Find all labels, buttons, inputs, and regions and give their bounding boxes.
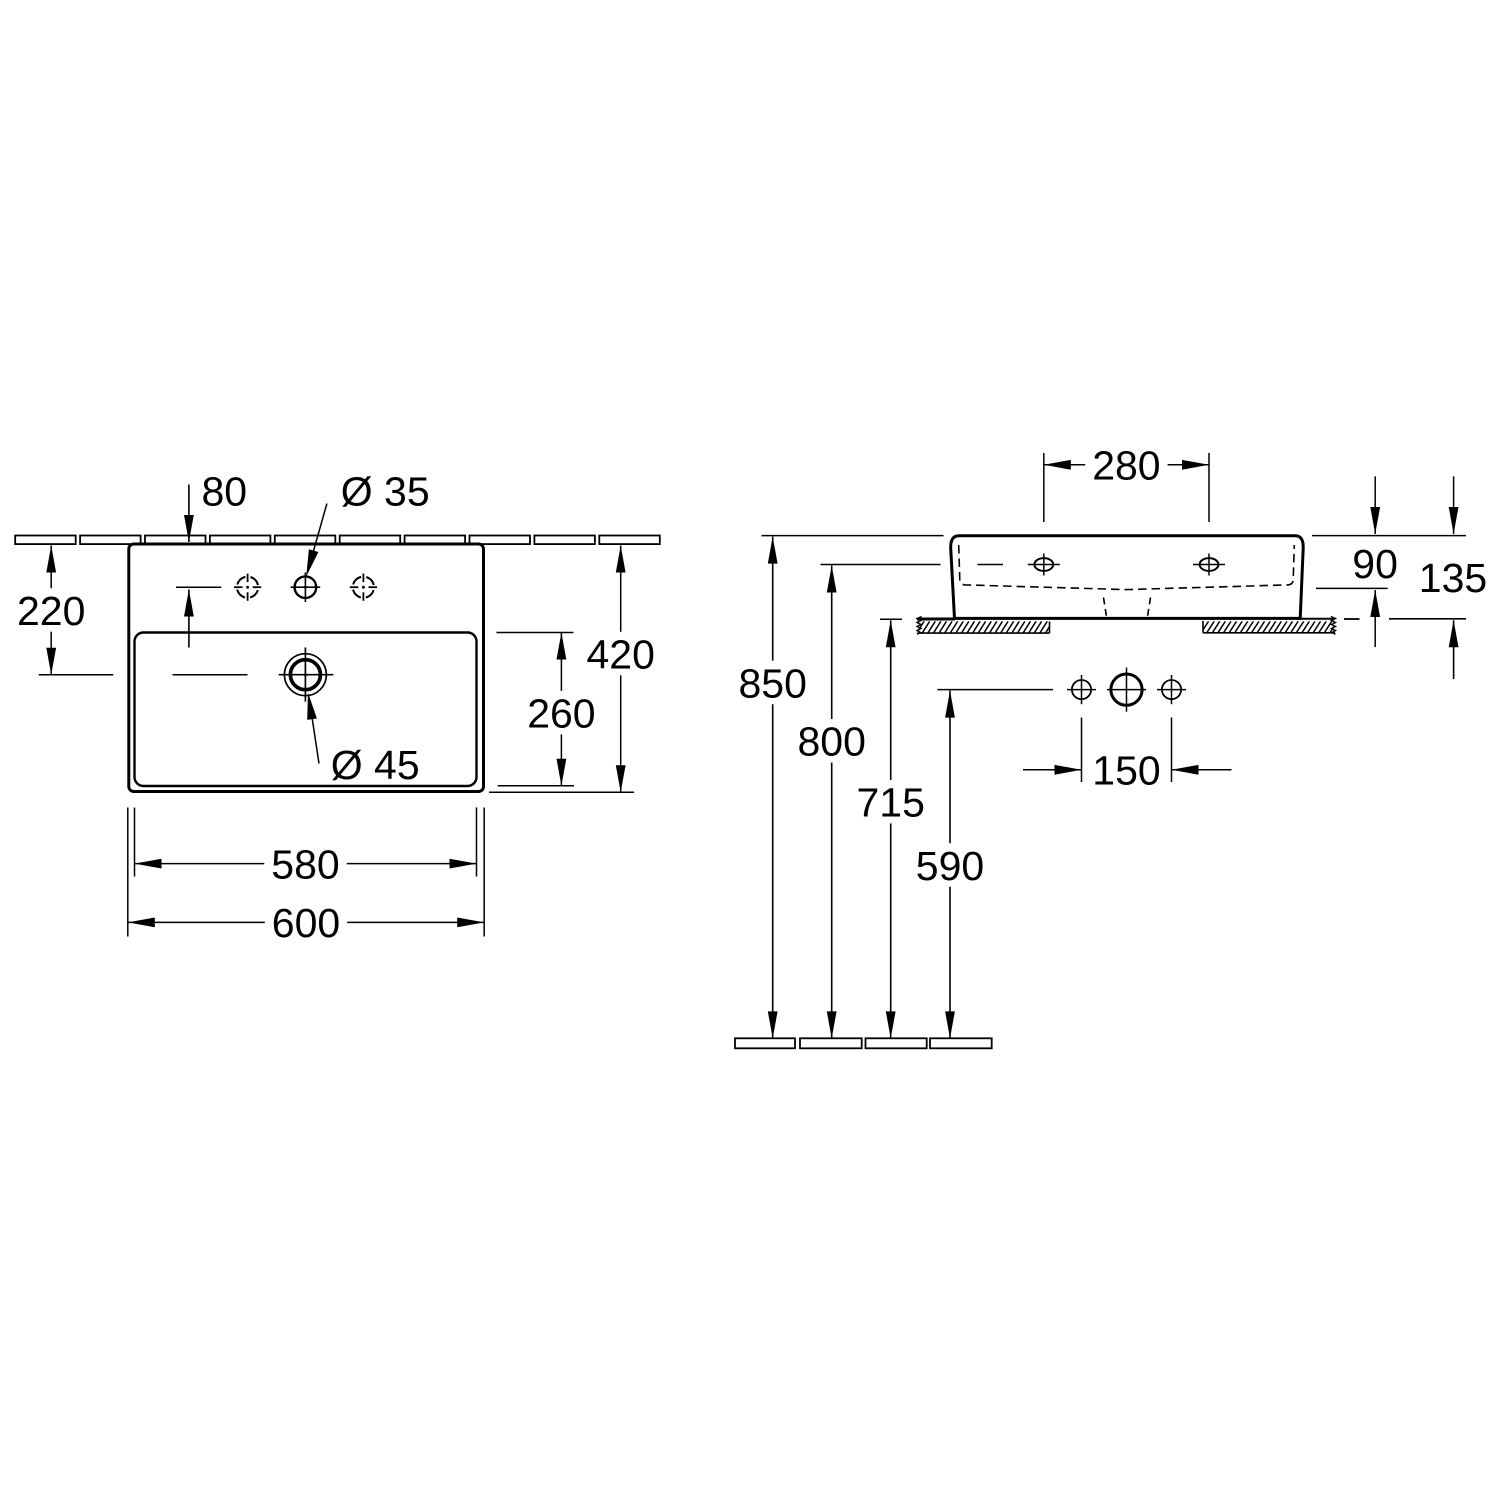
extension lines for 280 xyxy=(1043,453,1045,522)
leader arrow for drain diameter Ø 45 xyxy=(311,711,319,764)
dimension 800 (tap hole height above floor) xyxy=(831,566,833,1039)
bowl-interior-depth reference line (90) xyxy=(1316,587,1388,589)
tap-hole-level reference line inside basin xyxy=(176,586,221,588)
svg-text:150: 150 xyxy=(1092,748,1160,794)
rim-top reference line (90/135) xyxy=(1312,535,1466,537)
bowl-bottom reference line right of basin xyxy=(498,785,574,787)
svg-text:220: 220 xyxy=(17,588,85,634)
dimension 90 lower arrow xyxy=(1374,590,1376,647)
dimension 850 (rim height above floor) xyxy=(772,537,774,1039)
dimension 150 (fixing bolt spacing), outside arrows xyxy=(1023,769,1082,771)
left tap hole (front view) xyxy=(1028,554,1060,576)
left fixing bolt hole (front view) xyxy=(1067,675,1096,704)
washbasin outer rim (top view) xyxy=(129,544,484,792)
dimension 90 upper arrow xyxy=(1374,476,1376,534)
tap-hole-height reference line (800) xyxy=(821,564,941,566)
dimension 280 (tap hole spacing) xyxy=(1044,464,1209,466)
mounting-height reference tick (715) xyxy=(880,618,902,620)
extension line outer-left (600) xyxy=(127,808,129,937)
rim-bottom reference line right of basin xyxy=(489,791,634,793)
svg-text:850: 850 xyxy=(738,660,806,706)
tap-hole centreline dash (front view) xyxy=(978,564,1004,566)
break squiggle at right end of wall hatch xyxy=(1331,617,1336,635)
dimension 600 (overall width) xyxy=(128,921,484,923)
break squiggle at left end of wall hatch xyxy=(917,617,922,635)
wall mounting surface line right of basin (front view) xyxy=(1300,618,1335,620)
dimension 220 (wall edge to drain centre) xyxy=(50,546,52,675)
dimension 80 lower arrow (to tap hole centreline) xyxy=(188,590,190,648)
left optional tap hole (dashed, top view) xyxy=(233,572,263,602)
svg-text:135: 135 xyxy=(1419,555,1487,601)
svg-text:580: 580 xyxy=(271,841,339,887)
extension lines for 150 xyxy=(1081,718,1083,783)
svg-text:715: 715 xyxy=(856,780,924,826)
washbasin inner bowl rim (top view) xyxy=(135,633,477,787)
bowl interior hidden edge (dashed, front view) xyxy=(959,545,1295,590)
svg-text:260: 260 xyxy=(527,690,595,736)
extension line inner-left (580) xyxy=(134,808,136,877)
rim-height reference line (850) xyxy=(762,535,944,537)
svg-text:280: 280 xyxy=(1092,443,1160,489)
right fixing bolt hole (front view) xyxy=(1157,675,1186,704)
wall tile course above basin (top view) xyxy=(15,536,75,545)
svg-text:90: 90 xyxy=(1352,541,1398,587)
svg-text:420: 420 xyxy=(586,631,654,677)
svg-text:800: 800 xyxy=(797,719,865,765)
extension line inner-right (580) xyxy=(476,808,478,877)
svg-text:600: 600 xyxy=(272,900,340,946)
dimension 135 lower arrow xyxy=(1453,620,1455,679)
right optional tap hole (dashed, top view) xyxy=(348,572,378,602)
svg-text:Ø 35: Ø 35 xyxy=(341,468,430,514)
dimension 590 (fixing bolt height above floor) xyxy=(949,691,951,1039)
svg-text:80: 80 xyxy=(202,468,248,514)
right tap hole (front view) xyxy=(1193,554,1225,576)
bowl-top reference line right of basin xyxy=(497,632,574,634)
dimension 715 (underside height above floor) xyxy=(890,620,892,1038)
floor tile course (front view) xyxy=(735,1038,795,1048)
drain pipe outlet (front view) xyxy=(1107,668,1146,712)
dimension 580 (bowl width) xyxy=(135,863,477,865)
svg-text:590: 590 xyxy=(916,843,984,889)
drain outlet (top view) xyxy=(279,648,334,702)
dimension 260 (bowl depth, top view) xyxy=(560,633,562,786)
fixing-bolt-height reference line (590) xyxy=(937,689,1053,691)
svg-text:Ø 45: Ø 45 xyxy=(331,742,420,788)
dimension 80 upper arrow (to basin front edge) xyxy=(188,485,190,543)
drain hub hidden edges (dashed, front view) xyxy=(1104,598,1151,617)
dimension 420 (overall depth, top view) xyxy=(620,546,622,793)
leader arrow for tap hole diameter Ø 35 xyxy=(310,504,327,565)
dimension 135 upper arrow xyxy=(1453,476,1455,534)
wall-level dash continuation right of hatch xyxy=(1344,618,1360,620)
drain-level reference line left of basin xyxy=(39,674,114,676)
mounting-level reference line (135) xyxy=(1389,618,1466,620)
extension line outer-right (600) xyxy=(483,808,485,937)
washbasin body outline (front view) xyxy=(951,536,1304,619)
centre tap hole (top view) xyxy=(291,572,321,602)
wall mounting surface line left of basin (front view) xyxy=(917,618,955,621)
drain-level reference line inside bowl xyxy=(173,674,248,676)
